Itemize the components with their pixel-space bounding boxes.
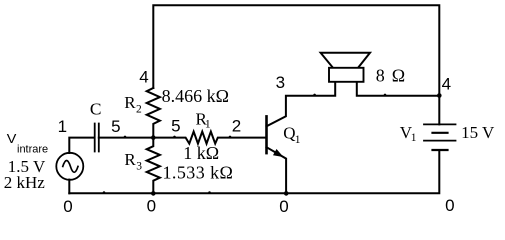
svg-text:intrare: intrare [17, 144, 48, 156]
svg-text:2 kHz: 2 kHz [4, 173, 46, 192]
svg-text:0: 0 [147, 196, 156, 215]
svg-text:1 kΩ: 1 kΩ [183, 143, 219, 163]
svg-text:3: 3 [276, 73, 285, 92]
svg-text:R: R [124, 93, 136, 112]
svg-text:2: 2 [136, 103, 142, 115]
svg-text:R: R [124, 150, 136, 169]
svg-text:Q: Q [283, 124, 295, 143]
svg-text:5: 5 [111, 117, 120, 136]
svg-text:4: 4 [442, 75, 451, 94]
svg-text:C: C [90, 100, 102, 119]
svg-text:0: 0 [279, 197, 288, 216]
svg-text:1: 1 [411, 132, 417, 144]
svg-text:8.466 kΩ: 8.466 kΩ [162, 86, 229, 106]
svg-text:0: 0 [63, 197, 72, 216]
svg-text:1.533 kΩ: 1.533 kΩ [163, 163, 233, 183]
svg-text:1: 1 [58, 117, 67, 136]
svg-text:V: V [7, 131, 17, 146]
svg-text:8 Ω: 8 Ω [376, 66, 405, 86]
svg-text:1: 1 [205, 119, 211, 131]
svg-text:1: 1 [295, 134, 301, 146]
svg-text:15 V: 15 V [461, 123, 495, 142]
svg-text:3: 3 [136, 160, 142, 172]
svg-text:4: 4 [139, 68, 148, 87]
svg-text:0: 0 [445, 196, 454, 215]
svg-text:2: 2 [232, 117, 241, 136]
svg-text:5: 5 [171, 117, 180, 136]
